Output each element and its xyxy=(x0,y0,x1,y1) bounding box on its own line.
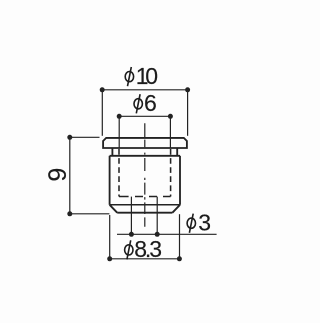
phi6 dimension end dot right xyxy=(168,114,173,119)
hidden bore line left (phi6) xyxy=(118,149,120,197)
phi10 dimension end dot left xyxy=(100,87,105,92)
phi3 dimension line xyxy=(117,233,217,235)
phi10 dimension line xyxy=(102,89,187,91)
chamfer right diagonal xyxy=(172,205,180,213)
svg-text:9: 9 xyxy=(44,168,72,182)
body top edge xyxy=(110,155,180,157)
9 dimension end dot bottom xyxy=(67,211,72,216)
neck right edge xyxy=(176,148,178,156)
chamfer left diagonal xyxy=(110,205,118,213)
9 bottom extension line xyxy=(70,213,110,215)
phi8.3 dimension line xyxy=(110,258,180,260)
phi3 hole left edge + extension line xyxy=(130,197,132,234)
flange (phi10) outline xyxy=(103,138,187,148)
9 dimension end dot top xyxy=(67,135,72,140)
phi3 dimension end dot right xyxy=(155,232,160,237)
svg-text:6: 6 xyxy=(144,90,157,116)
phi6 left extension line xyxy=(118,118,120,148)
phi8.3 right extension line xyxy=(179,214,181,259)
phi10 dimension end dot right xyxy=(185,87,190,92)
phi3 hole right edge + extension line xyxy=(156,197,158,234)
label phi10 diameter symbol xyxy=(125,67,133,86)
chamfer top edge line xyxy=(110,204,180,206)
phi8.3 dimension end dot left xyxy=(107,256,112,261)
neck left edge xyxy=(111,148,113,156)
svg-text:10: 10 xyxy=(136,63,158,89)
phi8.3 dimension end dot right xyxy=(177,256,182,261)
body left edge xyxy=(109,156,111,205)
phi6 right extension line xyxy=(169,118,171,148)
phi10 right extension line xyxy=(187,92,189,136)
label phi8.3 diameter symbol xyxy=(125,240,133,259)
9 top extension line xyxy=(70,136,100,138)
bottom edge xyxy=(117,212,172,214)
phi10 left extension line xyxy=(101,92,103,136)
phi3 dimension end dot left xyxy=(129,232,134,237)
body right edge xyxy=(179,156,181,205)
centerline xyxy=(144,123,146,227)
hidden bore bottom xyxy=(119,196,171,198)
phi8.3 left extension line xyxy=(109,215,111,259)
9 dimension line (vertical) xyxy=(69,137,71,214)
phi6 dimension line xyxy=(119,115,170,117)
label phi6 diameter symbol xyxy=(134,94,142,113)
svg-text:3: 3 xyxy=(149,236,162,262)
phi6 dimension end dot left xyxy=(117,114,122,119)
svg-text:3: 3 xyxy=(198,210,211,236)
label phi3 diameter symbol xyxy=(187,214,195,233)
hidden bore line right (phi6) xyxy=(170,149,172,197)
